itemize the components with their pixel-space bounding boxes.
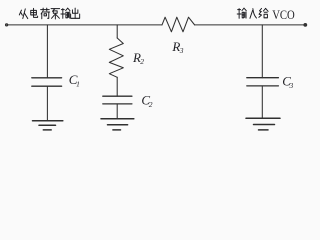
wire R2 branch top	[116, 25, 118, 38]
svg-text:VCO: VCO	[272, 7, 295, 22]
svg-text:2: 2	[140, 57, 144, 66]
wire C3 to ground	[261, 86, 263, 118]
wire top right segment	[195, 24, 306, 26]
resistor R2	[109, 38, 123, 77]
wire C3 branch top	[261, 25, 263, 78]
ground (C2)	[101, 119, 134, 130]
ground (C3)	[246, 118, 280, 130]
svg-text:1: 1	[76, 80, 80, 89]
resistor R3	[162, 17, 195, 32]
svg-text:3: 3	[179, 46, 184, 55]
label R3	[171, 39, 183, 55]
svg-text:2: 2	[149, 100, 153, 109]
capacitor C2	[103, 96, 132, 104]
text 从电荷泵输出 (from charge pump output)	[19, 8, 79, 19]
char 输	[237, 8, 246, 18]
wire top left segment	[7, 24, 162, 26]
label C1	[69, 72, 80, 88]
label C3	[282, 74, 293, 90]
char 从	[19, 9, 27, 19]
label C2	[141, 92, 152, 108]
label R2	[132, 50, 144, 66]
char 荷	[41, 8, 50, 19]
capacitor C1	[32, 78, 62, 86]
wire R2 to C2	[116, 77, 118, 96]
wire C1 branch top	[46, 25, 48, 78]
char 电	[31, 8, 38, 17]
svg-text:3: 3	[289, 81, 294, 90]
char 输	[61, 8, 70, 18]
ground (C1)	[33, 121, 63, 130]
node right terminal	[303, 23, 307, 27]
char 出	[71, 8, 80, 18]
text 输入给 VCO (input to VCO)	[237, 8, 268, 18]
char 泵	[51, 9, 60, 19]
char 给	[259, 8, 268, 17]
node left terminal	[6, 24, 8, 26]
wire C2 to ground	[116, 104, 118, 119]
wire C1 to ground	[46, 86, 48, 121]
capacitor C3	[247, 78, 279, 86]
char 入	[250, 9, 257, 19]
